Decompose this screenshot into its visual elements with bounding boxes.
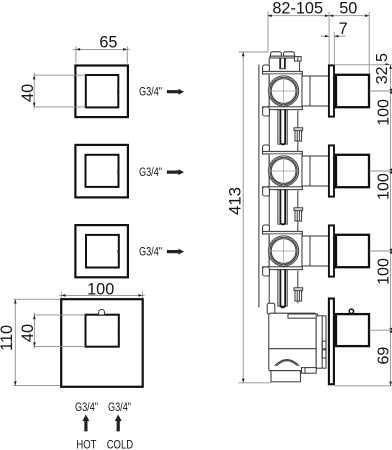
module 1 bleed plug cap [294,128,303,131]
module 2 crosshair [268,155,300,187]
module 1 bottom flange shade [263,108,301,110]
svg-text:G3/4": G3/4" [139,166,162,180]
right chain tick v4 [369,329,391,331]
module 1 bleed plug threads [297,131,299,140]
module 1 crosshair [268,75,300,107]
square plate 1 outer (65x65) [75,66,128,118]
dim 110 arrowheads [14,299,17,385]
module 2 bottom flange shade [263,188,301,190]
module 4 escutcheon plate side [329,299,334,385]
module 1 bleed plug body [295,130,302,141]
dim wall/plate extension [328,12,330,65]
svg-text:69: 69 [376,347,392,365]
svg-text:110: 110 [0,325,16,351]
svg-text:G3/4": G3/4" [139,245,162,259]
mounting rail left [258,65,260,308]
module 1 knob side [336,75,369,107]
dim 40 (plate 1) arrowheads [33,75,36,107]
module 4 dome inner [277,361,298,366]
module 1 bottom hook [263,107,270,116]
module 3 escutcheon plate side [329,225,334,276]
module 1 top flange shade [263,73,301,75]
svg-text:32,5: 32,5 [374,53,391,84]
right chain tick v3 [369,250,391,252]
G3/4 arrow row 3 [167,249,184,255]
dim 110 extension lines [13,299,60,385]
right chain tick v1 [369,90,391,92]
svg-text:50: 50 [339,0,357,18]
module 2 sleeve [302,156,329,186]
module 2 escutcheon plate side [329,145,334,196]
dim 40 (big plate) line [33,313,35,349]
module 1 top hook [263,65,270,74]
top cap hump right [284,52,295,56]
top right tab inner line [297,57,299,61]
module 2 bottom hook [263,187,270,196]
module 3 down pipe slot [280,270,285,308]
big plate outer (100x110) [61,299,143,387]
dim 110 line [14,299,16,385]
dim 413 arrowheads [242,52,245,383]
module 1 escutcheon plate side [329,65,334,116]
module 3 bottom hook [263,267,270,276]
svg-text:100: 100 [87,280,114,298]
dim 65 extension lines [76,47,127,64]
module 2 down pipe outer [278,190,287,225]
module 4 body seam [269,348,316,350]
dim 100 extension lines [61,292,142,298]
module 1 bottom flange [263,107,303,110]
module 2 top flange shade [263,153,301,155]
square plate 3 handle notch [117,250,119,253]
module 3 bottom flange shade [263,268,301,270]
module 3 sleeve divider [309,236,311,266]
dim 413 extension top [239,51,269,53]
module 2 bleed plug cap [294,208,303,211]
dim 65 arrowheads [76,48,127,51]
dim 40 (plate 1) line [33,73,35,110]
module 2 block [269,154,302,189]
svg-text:COLD: COLD [107,438,134,450]
module 3 valve circle mid [270,237,297,264]
top screw slot bottom [279,68,286,70]
module 4 cartridge line [321,316,323,368]
top right tab [295,57,302,61]
dim top arrowheads [268,14,370,17]
big plate handle button bump [99,309,105,314]
module 1 down pipe outer [278,110,287,145]
square plate 2 inner (handle front) [86,155,119,187]
module 4 cartridge notch lower [322,350,326,358]
svg-text:100: 100 [375,173,392,200]
top screw slot right wall [284,58,286,69]
top screw slot left wall [279,58,281,69]
module 1 sleeve divider [309,76,311,106]
module 4 knob side [336,314,369,346]
module 1 valve circle outer [269,76,299,106]
svg-text:82-105: 82-105 [272,0,323,18]
module 3 bottom flange [263,267,303,270]
dim 413 extension bottom [239,382,272,384]
hot up arrow [82,415,89,432]
module 3 top flange [263,231,303,234]
G3/4 arrow row 2 [167,169,184,175]
dim 82-105 extension left [267,12,269,52]
svg-text:7: 7 [339,20,348,38]
square plate 3 inner (handle front) [86,235,119,268]
module 4 outlet line [304,368,306,374]
svg-text:413: 413 [226,187,245,215]
module 3 top flange shade [263,233,301,235]
body right spine seg 1-2 [297,111,299,152]
module 4 cartridge notch upper [322,341,326,349]
module 2 valve circle mid [270,157,297,184]
module 3 knob side [336,235,369,267]
module 1 block [269,74,302,109]
module 3 sleeve [302,236,329,266]
G3/4 arrow row 1 [167,89,184,95]
dim 40 (plate 1) extension lines [33,75,85,107]
body right spine seg top [299,61,301,71]
dim 100 line [59,294,144,296]
dim 100 arrowheads [61,294,142,297]
dim 65 line [73,48,129,50]
module 4 clamp [267,303,275,314]
module 1 valve circle inner [271,79,296,104]
right chain tick v2 [369,170,391,172]
dim 7 arrowheads [325,35,339,38]
dim 413 line [242,52,244,383]
module 2 knob side [336,155,369,187]
square plate 2 handle notch [117,170,119,173]
dim 40 (big plate) arrowheads [33,315,36,347]
right chain arrowheads [389,65,392,386]
body right spine seg 2-3 [297,191,299,232]
module 2 top hook [263,145,270,154]
module 4 top ledge [288,314,317,318]
module 1 valve circle mid [270,77,297,104]
right chain extension top [334,64,392,66]
svg-text:100: 100 [375,99,392,126]
body left edge [268,58,270,313]
module 3 crosshair [268,235,300,267]
svg-text:40: 40 [19,84,37,102]
square plate 3 outer [75,225,128,277]
svg-text:G3/4": G3/4" [139,86,162,100]
module 2 bottom flange [263,187,303,190]
svg-text:HOT: HOT [76,438,97,450]
dim knob front extension [368,12,370,74]
right chain extension bottom [334,385,392,387]
module 3 down pipe outer [278,270,287,307]
module 4 knob button [349,309,353,313]
module 3 valve circle outer [269,236,299,266]
svg-text:G3/4": G3/4" [75,401,98,415]
module 2 bleed plug threads [297,211,299,220]
module 1 down pipe slot [280,110,285,145]
module 3 bleed plug body [295,290,302,301]
module 1 top flange [263,71,303,74]
svg-text:65: 65 [99,34,117,52]
big plate handle notch [118,329,120,332]
cold up arrow [115,415,122,432]
module 2 down pipe slot [280,190,285,225]
module 3 top hook [263,225,270,234]
module 4 dome outer [275,360,300,366]
top cap hump left [271,52,282,56]
square plate 1 inner (handle front) [86,75,119,107]
module 2 top flange [263,151,303,154]
module 4 bottom box [271,371,300,382]
right chain dim line [390,65,392,386]
dim top line [268,15,370,17]
module 3 bleed plug cap [294,288,303,291]
svg-text:G3/4": G3/4" [108,401,131,415]
svg-text:100: 100 [375,258,392,285]
module 4 body [269,313,316,371]
module 3 bleed plug threads [297,291,299,300]
dim 40 (big plate) extension lines [33,315,85,347]
square plate 1 handle notch [117,90,119,93]
module 4 outlet right [302,368,317,374]
module 1 sleeve [302,76,329,106]
body right spine seg 3-4 [297,271,299,304]
module 3 valve circle inner [271,239,296,264]
square plate 2 outer [75,145,128,198]
svg-text:40: 40 [19,324,37,342]
module 2 sleeve divider [309,156,311,186]
module 2 valve circle outer [269,156,299,186]
module 4 cartridge [316,316,326,368]
module 2 valve circle inner [271,159,296,184]
module 2 bleed plug body [295,210,302,221]
module 3 block [269,234,302,269]
top cap bar [270,56,295,58]
dim 7 extension right [333,32,335,65]
big plate inner (thermostat handle front) [86,315,119,347]
dim 7 line [320,35,345,37]
